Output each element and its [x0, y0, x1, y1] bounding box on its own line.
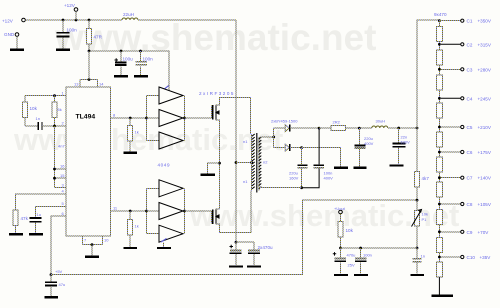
node sense C15 — [359, 247, 362, 250]
svg-text:2xBY459-1500: 2xBY459-1500 — [271, 119, 298, 124]
capacitor C6 — [45, 282, 57, 285]
transistor Q1 gate bar — [212, 105, 214, 120]
ground bar R5 — [124, 152, 138, 154]
capacitor C6 lead — [50, 275, 52, 282]
wire terminal 6 — [441, 151, 460, 153]
wire D2 out — [290, 147, 302, 149]
buffer A1 — [159, 87, 183, 104]
buffer A3 — [159, 132, 183, 149]
node source bus gnd tap — [218, 162, 221, 165]
ground bar sources — [201, 174, 216, 176]
terminal O6 — [461, 150, 464, 153]
node filter cap tap — [358, 127, 361, 130]
node chain 7 — [438, 176, 441, 179]
wire terminal 9 — [441, 231, 460, 233]
buffer A6 — [159, 225, 183, 242]
capacitor C2 lead — [120, 51, 122, 62]
transistor Q2 gate bar — [212, 209, 214, 224]
wire chain seg1 — [438, 21, 440, 27]
svg-text:47k: 47k — [21, 216, 29, 221]
terminal GND — [15, 33, 19, 37]
wire vcc rail — [89, 51, 169, 91]
svg-text:C3: C3 — [467, 67, 473, 72]
svg-text:n1: n1 — [243, 179, 248, 184]
svg-text:4049: 4049 — [158, 163, 171, 168]
wire D2 node to ground — [302, 148, 341, 167]
wire choke out — [346, 127, 372, 129]
svg-text:+315V: +315V — [478, 42, 492, 47]
resistor R8 — [338, 221, 343, 237]
node input bus driver2 — [145, 210, 148, 213]
wire C15 to gnd — [360, 263, 362, 274]
pin 14 stub — [97, 80, 99, 88]
terminal O10 — [461, 255, 464, 258]
wire pin8 to driver1 — [111, 117, 147, 119]
wire C1 to gnd — [62, 38, 64, 49]
wire terminal 3 — [441, 68, 460, 70]
wire Q1 source bus — [216, 120, 220, 209]
ground bar C5 — [29, 233, 43, 235]
wire pins 13-14 tie — [80, 79, 98, 81]
terminal O7 — [461, 176, 464, 179]
svg-text:+175V: +175V — [478, 150, 492, 155]
resistor R5 lead — [129, 118, 131, 126]
svg-text:2xIRF3205: 2xIRF3205 — [199, 91, 235, 96]
wire ic gnd — [91, 245, 93, 256]
wire chain to gnd — [438, 277, 440, 294]
wire R7 to node — [416, 187, 418, 200]
terminal O3 — [461, 68, 464, 71]
svg-text:16: 16 — [60, 164, 65, 169]
resistor R2 lead bottom — [24, 118, 26, 127]
transistor Q1 channel bar — [215, 104, 217, 120]
node center tap rail — [235, 161, 238, 164]
resistor RC5 — [436, 132, 442, 147]
wire Q2 drain — [216, 191, 252, 233]
node sense — [339, 247, 342, 250]
wire center tap — [236, 162, 252, 164]
wire terminal 4 — [441, 97, 460, 99]
capacitor C15 — [355, 257, 367, 259]
node pins13-14 — [88, 78, 91, 81]
terminal O1 — [461, 19, 464, 22]
node feedback — [416, 199, 419, 202]
svg-text:C7: C7 — [467, 176, 473, 181]
terminal O4 — [461, 97, 464, 100]
wire terminal 2 — [441, 43, 460, 45]
wire feedback long run — [51, 200, 417, 275]
node rail caps junction — [235, 241, 238, 244]
resistor R3 lead top — [54, 96, 56, 102]
node A junction — [62, 19, 65, 22]
wire D1 cap drop — [318, 128, 320, 164]
resistor R2 lead top — [24, 96, 26, 102]
transformer T1 secondary winding — [258, 137, 260, 191]
capacitor C12 lead — [398, 128, 400, 143]
wire C9 to rail — [301, 169, 303, 188]
wire driver2 gnd stub — [163, 242, 165, 247]
node RC bottom — [53, 125, 56, 128]
svg-text:C4: C4 — [467, 96, 473, 101]
svg-text:14: 14 — [99, 82, 104, 87]
wire terminal 5 — [441, 126, 460, 128]
wire top rail right to corner — [138, 19, 236, 21]
capacitor C7 lead — [235, 242, 237, 249]
svg-text:630V: 630V — [401, 139, 411, 144]
wire R1 to vcc rail — [88, 44, 90, 51]
node output bus driver1 — [183, 117, 186, 120]
svg-text:C5: C5 — [467, 125, 473, 130]
wire gnd stub — [16, 37, 18, 49]
wire secondary bottom lead — [259, 187, 302, 189]
diode D1 — [285, 125, 289, 132]
svg-text:5k: 5k — [58, 107, 62, 112]
inductor L3 — [372, 126, 388, 128]
terminal O9 — [461, 230, 464, 233]
node chain 10 — [438, 256, 441, 259]
wire node to trimmer — [416, 200, 418, 210]
wire to D1 — [274, 127, 285, 129]
terminal O5 — [461, 125, 464, 128]
diode D2 — [285, 144, 289, 151]
supply +12V circle — [74, 8, 78, 12]
resistor RC4 — [436, 103, 442, 118]
capacitor C3 — [135, 62, 147, 65]
wire chain seg4 — [438, 90, 440, 103]
svg-text:160V: 160V — [289, 175, 299, 180]
svg-text:4n7: 4n7 — [58, 144, 65, 149]
node rectifier out — [318, 127, 321, 130]
pin 10 stub — [102, 236, 104, 245]
ground bar C14 — [334, 274, 348, 276]
wire RC bottom left — [25, 125, 38, 127]
wire chain seg6 — [438, 147, 440, 157]
ground bar R6 — [124, 247, 138, 249]
capacitor C8 — [248, 249, 260, 251]
svg-text:47u: 47u — [59, 282, 66, 287]
svg-text:C6: C6 — [467, 150, 473, 155]
resistor R6 lead — [129, 211, 131, 220]
inductor L2 box — [331, 126, 346, 131]
wire tie bus left pins — [54, 126, 56, 188]
svg-text:10k: 10k — [30, 106, 38, 111]
svg-text:10k: 10k — [346, 228, 354, 233]
node pin16 tie — [53, 168, 56, 171]
wire C12 to gnd — [398, 147, 400, 164]
supply tick driver bottom — [161, 238, 167, 242]
resistor R3 lead bottom — [54, 118, 56, 127]
capacitor C13 — [412, 259, 421, 262]
node center tap winding — [250, 161, 253, 164]
polarity + C7 — [230, 245, 234, 249]
wire gate M1 — [185, 106, 212, 119]
wire C6 to gnd — [50, 286, 52, 296]
svg-text:GND: GND — [4, 32, 15, 37]
wire output to divider — [416, 128, 418, 172]
supply tick driver top — [165, 85, 169, 88]
diode D2 bar — [289, 144, 291, 151]
wire pins 7-10 tie — [83, 244, 103, 246]
svg-text:P1: P1 — [422, 217, 428, 222]
capacitor C10 — [314, 164, 324, 166]
svg-text:C9: C9 — [467, 230, 473, 235]
node output bus driver2 — [183, 210, 186, 213]
terminal +Uo — [339, 210, 343, 214]
resistor R1 — [87, 29, 92, 45]
wire input bus driver1 — [146, 96, 148, 141]
ground bar C7 — [229, 265, 243, 267]
wire pin5 row — [36, 207, 67, 218]
resistor RC10 — [436, 262, 442, 277]
polarity + C14 — [333, 252, 336, 256]
capacitor C4 — [38, 122, 42, 130]
capacitor C11 — [354, 145, 365, 147]
wire secondary top lead — [261, 136, 274, 138]
svg-text:10: 10 — [104, 238, 109, 243]
svg-text:+140V: +140V — [478, 176, 492, 181]
svg-text:+12V: +12V — [2, 19, 14, 24]
resistor R6 — [128, 220, 133, 236]
pin 3 stub — [55, 187, 67, 189]
buffer A2 — [159, 110, 183, 127]
wire gate M2 — [185, 211, 212, 224]
wire R6 to gnd — [129, 235, 131, 247]
capacitor C11 lead — [358, 128, 360, 145]
op-amp U1 TL494 box — [66, 87, 111, 236]
resistor R4 — [13, 210, 18, 226]
svg-text:1k: 1k — [135, 130, 139, 135]
ground bar C3 — [134, 75, 148, 77]
wire C13 to gnd — [416, 262, 418, 274]
wire terminal 7 — [441, 177, 460, 179]
wire output to chain top — [417, 20, 439, 128]
node +5V — [50, 273, 53, 276]
wire buffer5 input stub — [147, 210, 160, 212]
ground bar C2 — [114, 75, 128, 77]
transistor Q1 arrow — [216, 111, 220, 114]
svg-text:100n: 100n — [143, 57, 154, 62]
node chain 6 — [438, 151, 441, 154]
wire R5 to gnd — [129, 141, 131, 152]
svg-text:1k: 1k — [135, 224, 139, 229]
wire buffer2 input stub — [147, 117, 160, 119]
svg-text:C8: C8 — [467, 202, 473, 207]
wire output bus driver1 — [184, 96, 186, 141]
svg-text:4k7: 4k7 — [422, 176, 430, 181]
capacitor C5 — [30, 218, 42, 222]
node output cap tap — [397, 127, 400, 130]
svg-text:10k: 10k — [422, 212, 428, 217]
ground bar C1 — [56, 49, 70, 51]
wire center rail — [235, 20, 237, 242]
resistor R4 lead bottom — [15, 226, 17, 234]
svg-text:1n: 1n — [421, 254, 425, 259]
node pins7-10 — [91, 243, 94, 246]
resistor RC3 — [436, 75, 442, 90]
svg-text:470u: 470u — [347, 253, 356, 258]
polarity + C2 — [115, 58, 119, 62]
svg-text:+12V: +12V — [64, 3, 76, 8]
wire C11 to gnd — [358, 149, 360, 167]
svg-text:22uH: 22uH — [123, 12, 134, 17]
pin 7 stub — [82, 236, 84, 245]
capacitor C3 lead — [140, 51, 142, 62]
buffer A5 — [159, 203, 183, 220]
capacitor C13 lead — [416, 248, 418, 258]
node chain 8 — [438, 203, 441, 206]
svg-text:1n: 1n — [36, 116, 40, 121]
svg-text:C2: C2 — [467, 42, 473, 47]
ground bar top-left — [10, 49, 24, 51]
ground bar C8 — [247, 265, 261, 267]
ground bar C11 — [353, 166, 366, 168]
wire trimmer to sense node — [416, 226, 418, 248]
trimmer P1 arrow — [412, 210, 422, 227]
node chain 5 — [438, 126, 441, 129]
capacitor C14 lead — [340, 248, 342, 258]
resistor RC8 — [436, 209, 442, 224]
wire Q2 source — [216, 208, 220, 210]
node gate1 resistor tap — [129, 117, 132, 120]
wire C5 to gnd — [35, 223, 37, 234]
svg-text:+35V: +35V — [480, 255, 492, 260]
svg-text:400V: 400V — [324, 175, 334, 180]
wire top rail left — [26, 19, 123, 21]
capacitor C8 lead — [253, 242, 255, 249]
ground bar chain — [432, 295, 454, 297]
node input bus driver1 — [145, 117, 148, 120]
resistor RC6 — [436, 157, 442, 172]
node chain top — [438, 19, 441, 22]
capacitor C9 — [297, 164, 307, 166]
resistor RC9 — [436, 237, 442, 252]
wire D1 out — [290, 127, 319, 129]
wire chain seg8 — [438, 197, 440, 209]
ground bar D2 node — [334, 166, 348, 168]
svg-text:100n: 100n — [363, 253, 372, 258]
resistor R1 lead — [88, 20, 90, 29]
wire C8 to gnd — [253, 254, 255, 265]
wire C10 to rail — [302, 169, 320, 188]
svg-text:n1: n1 — [243, 139, 248, 144]
svg-text:n2: n2 — [263, 160, 268, 165]
node D2 cap tap — [300, 146, 303, 149]
transistor Q2 channel bar — [215, 208, 217, 224]
svg-text:+350V: +350V — [478, 19, 492, 24]
buffer A4 — [159, 180, 183, 197]
node C junction — [88, 19, 91, 22]
node pin15 tie — [53, 177, 56, 180]
ground bar driver2 — [157, 247, 171, 249]
svg-text:15: 15 — [60, 173, 65, 178]
node vcc rail C3 — [139, 50, 142, 53]
svg-text:100u: 100u — [123, 57, 134, 62]
wire pin4 row — [16, 194, 66, 210]
node secondary bottom — [300, 186, 303, 189]
ground bar C13 — [411, 274, 425, 276]
trimmer P1 — [415, 211, 420, 227]
wire gnd tap — [208, 163, 220, 173]
svg-text:+280V: +280V — [478, 67, 492, 72]
node gate2 resistor tap — [129, 210, 132, 213]
wire buffer1 input stub — [147, 95, 160, 97]
transformer core — [256, 133, 258, 193]
wire sense terminal lead — [340, 214, 342, 221]
svg-text:TL494: TL494 — [76, 114, 96, 121]
svg-text:13: 13 — [74, 82, 79, 87]
node chain 4 — [438, 97, 441, 100]
svg-text:www.shematic.net: www.shematic.net — [54, 17, 376, 58]
wire +12V drop — [75, 12, 77, 21]
svg-text:47R: 47R — [94, 35, 103, 40]
wire rail caps — [236, 241, 254, 243]
wire to filter choke — [319, 127, 331, 129]
wire output bus driver2 — [184, 188, 186, 233]
node trimmer bottom — [416, 247, 419, 250]
wire buffer3 input stub — [147, 140, 160, 142]
wire sense rail — [341, 247, 418, 249]
resistor RC1 — [436, 27, 442, 42]
wire C3 to gnd — [140, 67, 142, 76]
wire chain seg2 — [438, 42, 440, 50]
wire C14 to gnd — [340, 263, 342, 274]
wire D2 cap drop — [301, 148, 303, 164]
capacitor C15 lead — [360, 248, 362, 258]
wire vref drop — [88, 51, 90, 80]
pin 13 stub — [79, 80, 81, 88]
wire chain top terminal — [439, 20, 460, 22]
wire diode split vertical — [273, 128, 275, 148]
ground bar ic — [85, 256, 99, 258]
svg-text:400V: 400V — [364, 141, 374, 146]
svg-text:2R2: 2R2 — [333, 120, 341, 125]
svg-text:+70V: +70V — [478, 230, 490, 235]
wire input bus driver2 — [146, 188, 148, 233]
svg-text:+5V: +5V — [55, 269, 63, 274]
node vcc rail C2 — [120, 50, 123, 53]
node vcc rail R1 — [88, 50, 91, 53]
svg-text:2x470u: 2x470u — [258, 245, 274, 250]
wire RC bottom right — [42, 125, 66, 127]
resistor RC2 — [436, 50, 442, 65]
capacitor C1 lead — [62, 20, 64, 32]
resistor R2 — [23, 102, 28, 118]
diode D1 bar — [289, 125, 291, 132]
wire chain seg3 — [438, 65, 440, 75]
svg-text:+Uout: +Uout — [334, 206, 346, 211]
capacitor C14 — [335, 257, 347, 259]
ground bar R4 — [9, 233, 23, 235]
wire chain seg10 — [438, 252, 440, 262]
ground bar C15 — [354, 274, 368, 276]
capacitor C7 — [230, 249, 242, 251]
resistor R5 — [128, 126, 133, 142]
svg-text:+210V: +210V — [478, 125, 492, 130]
node RC top — [53, 94, 56, 97]
capacitor C12 — [392, 144, 405, 147]
wire Q1 drain — [216, 98, 251, 135]
transistor Q2 arrow — [216, 215, 220, 218]
wire to D2 — [274, 147, 285, 149]
wire pin11 to driver2 — [111, 210, 147, 212]
capacitor C2 — [115, 62, 127, 65]
svg-text:100n: 100n — [67, 28, 78, 33]
node diode split — [272, 136, 275, 139]
resistor R3 — [52, 102, 57, 118]
pin 16 stub — [55, 168, 67, 170]
terminal O2 — [461, 43, 464, 46]
wire pin1 row — [25, 95, 66, 97]
